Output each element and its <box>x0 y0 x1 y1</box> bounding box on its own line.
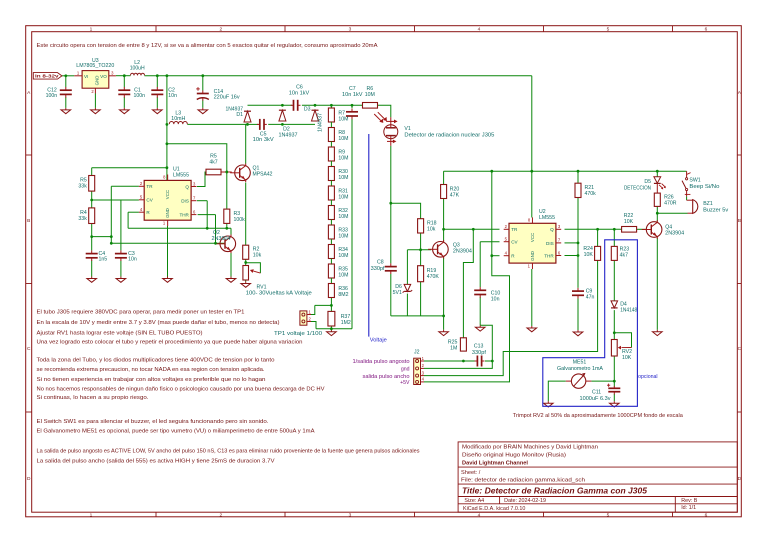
svg-text:10mH: 10mH <box>171 116 185 122</box>
svg-text:TR: TR <box>511 227 518 232</box>
hierarchical label In 8-12v <box>33 73 62 80</box>
wire branch to R3 pullup <box>167 144 227 209</box>
wire narrow pulse net from trigger line to R25 <box>463 229 473 337</box>
wire timing node horizontal <box>92 236 112 238</box>
wire VCC drop to U2 pin 8 <box>531 76 533 218</box>
switch SW1 <box>686 171 688 177</box>
LED D5 DETECCION <box>654 177 661 183</box>
svg-text:10n: 10n <box>128 257 137 263</box>
wire U2 CV to C10 <box>480 241 499 243</box>
trimpot RV2 <box>611 340 617 357</box>
svg-text:No nos hacemos responsables de: No nos hacemos responsables de ningun da… <box>37 387 325 393</box>
wire RV2 wiper loop <box>614 333 631 348</box>
svg-text:TR: TR <box>146 184 153 189</box>
wire CV branch down to C3 <box>120 200 122 250</box>
wire D4 to RV2 <box>613 310 615 339</box>
svg-text:10n 1kV: 10n 1kV <box>289 91 310 97</box>
svg-text:Galvanometro 1mA: Galvanometro 1mA <box>557 366 604 372</box>
svg-text:VO: VO <box>100 74 107 79</box>
svg-text:10M: 10M <box>338 233 348 239</box>
wire Q3 emitter to ground <box>443 258 445 330</box>
svg-text:5: 5 <box>607 27 610 33</box>
svg-text:Beep Si/No: Beep Si/No <box>689 184 719 190</box>
transistor Q2 2N3904 <box>220 236 236 252</box>
svg-text:LM555: LM555 <box>539 215 555 221</box>
svg-text:GND: GND <box>530 251 535 261</box>
resistor R34 <box>328 245 334 259</box>
schematic notes text <box>37 43 684 465</box>
svg-text:1: 1 <box>90 27 93 33</box>
svg-text:DIS: DIS <box>181 199 189 204</box>
capacitor C3 <box>115 253 127 255</box>
wire R36-R37 junction and TP1 pin1 <box>330 298 332 312</box>
wire reset/discharge lower bus <box>128 227 231 229</box>
svg-text:Buzzer 5v: Buzzer 5v <box>703 208 728 214</box>
wire D6 column <box>406 250 408 285</box>
svg-text:Size: A4: Size: A4 <box>464 498 484 504</box>
ground meter <box>547 401 549 403</box>
svg-text:TP1 voltaje 1/100: TP1 voltaje 1/100 <box>274 331 322 337</box>
svg-text:100uH: 100uH <box>130 65 145 71</box>
wire RV2 bottom to meter node <box>613 356 615 387</box>
blue optional box <box>543 240 638 406</box>
wire tube cathode down to pulse node and C8 <box>390 146 392 264</box>
wire +5V sub rail <box>444 170 687 172</box>
svg-text:2N3904: 2N3904 <box>453 249 472 255</box>
wire U1 THR loop <box>198 214 216 216</box>
wire L3 output row to boost node <box>187 123 247 125</box>
capacitor C13 series <box>476 356 478 367</box>
capacitor C1 <box>118 89 130 91</box>
wire RV1 wiper loop <box>246 263 261 273</box>
wire pulse branch to R18 <box>391 203 421 219</box>
transistor Q1 MPSA42 <box>235 165 251 181</box>
wire +9V main top rail <box>62 75 74 77</box>
resistor R33 <box>328 225 334 239</box>
resistor R2 10k <box>243 245 249 259</box>
regulator U3 LM7805 <box>82 71 109 89</box>
svg-text:D3: D3 <box>304 107 311 113</box>
wire R26 to buzzer node <box>656 206 658 213</box>
svg-text:Una vez logrado esto colocar e: Una vez logrado esto colocar el tubo y r… <box>37 340 303 346</box>
capacitor C10 <box>474 289 486 291</box>
resistor R24 10K <box>595 246 601 260</box>
svg-text:10n: 10n <box>491 296 500 302</box>
svg-text:Sheet: /: Sheet: / <box>461 470 481 476</box>
capacitor C4 <box>86 253 98 255</box>
svg-text:CV: CV <box>146 198 153 203</box>
resistor R30 <box>328 167 334 181</box>
svg-text:33k: 33k <box>78 184 87 190</box>
ground C3 <box>120 277 122 279</box>
svg-text:3: 3 <box>349 27 352 33</box>
wire R19 bottom <box>420 282 422 316</box>
wire U2 DIS to timing node <box>565 242 579 244</box>
svg-text:Si continuas, lo hacen a su pr: Si continuas, lo hacen a su propio riesg… <box>37 395 149 401</box>
diode D3 1N4937 <box>312 110 319 121</box>
svg-text:330pf: 330pf <box>472 350 487 356</box>
wire reset high net to J2 +5V <box>424 171 510 382</box>
svg-text:LM7805_TO220: LM7805_TO220 <box>76 63 114 69</box>
svg-text:El tubo J305 requiere 380VDC p: El tubo J305 requiere 380VDC para operar… <box>37 310 245 316</box>
svg-text:Ajustar RV1 hasta lograr este: Ajustar RV1 hasta lograr este voltaje (S… <box>37 331 203 337</box>
wire C2 leg <box>156 76 158 88</box>
ground regulator <box>94 108 96 110</box>
svg-text:Si no tienen experiencia en tr: Si no tienen experiencia en trabajar con… <box>37 377 266 383</box>
svg-text:10M: 10M <box>338 116 348 122</box>
resistor R36 <box>328 284 334 298</box>
svg-text:VCC: VCC <box>530 233 535 242</box>
svg-text:10M: 10M <box>365 92 375 98</box>
wire R4 bottom to C4 <box>91 224 93 251</box>
wire U1 GND leg <box>167 226 169 277</box>
wire HV divider foot node <box>316 328 352 330</box>
svg-text:6: 6 <box>705 512 708 518</box>
555 timer U2 <box>509 223 556 263</box>
svg-text:GND: GND <box>95 76 100 86</box>
svg-text:1M: 1M <box>450 345 457 351</box>
resistor R6 <box>363 103 378 109</box>
transistor Q4 2N3904 <box>646 222 662 238</box>
ground RV1 <box>245 282 247 284</box>
svg-text:D: D <box>738 476 742 482</box>
svg-text:C13: C13 <box>474 344 484 350</box>
wire multiplier bottom rail with C5 gap <box>248 123 259 125</box>
wire C13 right plate to gnd net <box>485 360 492 362</box>
svg-text:C8: C8 <box>377 259 384 265</box>
capacitor C8 <box>385 266 397 268</box>
diode D2 1N4937 <box>279 110 286 121</box>
svg-text:5: 5 <box>607 512 610 518</box>
resistor R4 33k <box>89 208 95 224</box>
svg-text:D: D <box>27 476 31 482</box>
svg-text:+5V: +5V <box>400 380 410 386</box>
555 timer U1 <box>144 180 191 220</box>
svg-text:10M: 10M <box>338 253 348 259</box>
wire C4 bottom to ground <box>91 260 93 276</box>
svg-text:GND: GND <box>165 208 170 218</box>
svg-text:10n: 10n <box>168 93 177 99</box>
blue graphic line Voltaje <box>368 134 370 337</box>
ground C11 <box>613 401 615 403</box>
wire C1 leg <box>123 76 125 88</box>
svg-text:KiCad E.D.A. kicad 7.0.10: KiCad E.D.A. kicad 7.0.10 <box>463 506 525 512</box>
svg-text:File: detector de radiacion ga: File: detector de radiacion gamma.kicad_… <box>461 478 585 484</box>
wire RV1 bottom to ground <box>245 280 247 282</box>
ground U2 <box>531 326 533 328</box>
wire U2 THR to timing node <box>565 255 579 257</box>
svg-text:1000uF 6.3v: 1000uF 6.3v <box>580 396 611 402</box>
resistor R5a 33k <box>89 176 95 192</box>
ground U1 <box>167 277 169 279</box>
inductor L3 <box>169 122 187 125</box>
wire Q1 collector to boost node <box>246 124 248 163</box>
wire wide pulse from R24 to J2 pin3 <box>424 260 598 375</box>
ground Q4 <box>656 330 658 332</box>
svg-text:THR: THR <box>179 213 189 218</box>
wire R2 to RV1 node <box>245 259 247 265</box>
title block <box>458 442 737 512</box>
svg-text:Q: Q <box>550 227 554 232</box>
wire C14 leg <box>202 76 204 91</box>
wire meter left to ground <box>548 381 566 401</box>
buzzer BZ1 <box>686 197 688 201</box>
svg-text:Modificado por BRAIN Machines: Modificado por BRAIN Machines y David Li… <box>462 444 598 450</box>
svg-text:47n: 47n <box>586 294 595 300</box>
resistor R21 470k <box>575 183 581 197</box>
svg-text:470k: 470k <box>585 191 597 197</box>
svg-text:VI: VI <box>84 74 88 79</box>
svg-text:Id: 1/1: Id: 1/1 <box>681 505 696 511</box>
svg-text:SW1: SW1 <box>689 178 700 184</box>
svg-text:Diseño original Hugo Monitov (: Diseño original Hugo Monitov (Rusia) <box>462 452 566 458</box>
capacitor C6 series <box>293 100 295 111</box>
wire C8 bottom <box>390 274 392 316</box>
wire Q2 emitter to ground <box>230 252 232 277</box>
ground C2 <box>156 108 158 110</box>
svg-text:10M: 10M <box>338 155 348 161</box>
svg-text:BZ1: BZ1 <box>703 201 713 207</box>
svg-text:2N3904: 2N3904 <box>665 231 684 237</box>
svg-text:se recomienda extrema precauci: se recomienda extrema precaucion, no toc… <box>37 367 265 373</box>
wire U1 reset pin net <box>128 211 139 213</box>
capacitor C7 <box>346 111 358 113</box>
svg-text:salida pulso ancho: salida pulso ancho <box>363 374 410 380</box>
ground C1 <box>123 108 125 110</box>
wire Q3 base network <box>407 249 431 251</box>
svg-text:La salida de pulso angosto es: La salida de pulso angosto es ACTIVE LOW… <box>37 448 420 454</box>
svg-text:Este circuito opera con tensio: Este circuito opera con tension de entre… <box>37 43 378 49</box>
wire R37 bottom to ground <box>330 326 332 330</box>
svg-text:El Galvanometro ME51 es opcion: El Galvanometro ME51 es opcional, puede … <box>37 429 315 435</box>
geiger tube V1 <box>384 125 398 139</box>
resistor R8 <box>328 128 334 142</box>
svg-text:10K: 10K <box>622 355 632 361</box>
ground C9 <box>577 330 579 332</box>
trimpot RV1 <box>243 266 249 281</box>
resistor R32 <box>328 206 334 220</box>
wire gnd net to J2 pin2 <box>424 325 492 368</box>
svg-text:La salida del pulso ancho (sal: La salida del pulso ancho (salida del 55… <box>37 459 275 465</box>
ground C4 <box>91 277 93 279</box>
svg-text:V1: V1 <box>404 126 410 132</box>
svg-text:opcional: opcional <box>638 374 658 380</box>
svg-text:100k: 100k <box>234 217 246 223</box>
svg-text:10k: 10k <box>253 253 262 259</box>
resistor R9 <box>328 147 334 161</box>
svg-text:1N4937: 1N4937 <box>318 113 324 132</box>
svg-text:C11: C11 <box>592 389 601 395</box>
wire U1 TR pin <box>111 185 139 187</box>
svg-text:47K: 47K <box>450 193 460 199</box>
svg-text:100n: 100n <box>46 93 58 99</box>
ground C12 <box>65 108 67 110</box>
svg-text:1M2: 1M2 <box>341 320 351 326</box>
svg-text:2N3904: 2N3904 <box>212 236 231 242</box>
svg-text:5V1: 5V1 <box>393 290 402 296</box>
wire regulator ground leg <box>94 94 96 108</box>
svg-text:CV: CV <box>511 240 518 245</box>
svg-text:David Lightman Channel: David Lightman Channel <box>462 460 528 466</box>
wire TP1 pin2 <box>311 322 316 329</box>
wire rail drop x=167 to L3 / R3 pullup / U1 VCC <box>166 76 168 181</box>
svg-text:4k7: 4k7 <box>209 159 217 165</box>
connector J2 <box>414 358 421 384</box>
wire R7 chain top leg <box>330 105 332 108</box>
svg-text:In 8-32v: In 8-32v <box>35 74 59 80</box>
wire U2 GND leg <box>531 269 533 326</box>
wire Q1 emitter down to R2 <box>245 183 247 246</box>
ground pulse network <box>443 330 445 332</box>
wire R5b to Q1 base <box>221 171 232 173</box>
wire C12 leg <box>65 76 67 87</box>
resistor R26 470R <box>654 193 660 206</box>
wire buzzer node to Q4 collector <box>657 212 687 214</box>
wire J2 pin1 narrow pulse line <box>424 360 477 362</box>
wire U1 CV net to R4/R5 divider <box>92 199 139 201</box>
svg-text:4k7: 4k7 <box>620 252 628 258</box>
ground Q2 <box>230 277 232 279</box>
svg-text:1: 1 <box>90 512 93 518</box>
wire D5 anode from rail <box>656 171 658 176</box>
svg-text:470K: 470K <box>427 274 440 280</box>
svg-text:33k: 33k <box>78 216 87 222</box>
ground C10 <box>479 325 481 327</box>
svg-text:D5: D5 <box>644 179 651 185</box>
capacitor C9 <box>572 290 584 292</box>
wire U1 DIS pin drop <box>197 200 207 202</box>
diode D4 1N4148 <box>611 301 618 308</box>
svg-text:DIS: DIS <box>546 241 554 246</box>
svg-text:ME51: ME51 <box>573 359 587 365</box>
wire C9 column <box>577 243 579 288</box>
svg-text:Date: 2024-02-19: Date: 2024-02-19 <box>504 498 546 504</box>
svg-text:VCC: VCC <box>165 190 170 199</box>
svg-text:1/salida pulso angosto: 1/salida pulso angosto <box>353 359 410 365</box>
wire meter right to C11 node <box>591 380 614 382</box>
svg-text:1N4937: 1N4937 <box>279 132 298 138</box>
wire R23 to D4 <box>613 260 615 301</box>
wire U1 output to R5b <box>197 172 206 187</box>
svg-text:2: 2 <box>219 512 222 518</box>
svg-text:Trimpot RV2 al 50% da aproxima: Trimpot RV2 al 50% da aproximadamente 10… <box>513 413 684 419</box>
svg-text:Detector de radiacion nuclear: Detector de radiacion nuclear J305 <box>404 132 494 138</box>
svg-text:8M2: 8M2 <box>338 292 348 298</box>
resistor R22 10K horizontal <box>622 227 637 233</box>
resistor R35 <box>328 264 334 278</box>
svg-text:J2: J2 <box>414 350 420 356</box>
svg-text:gnd: gnd <box>401 367 410 373</box>
svg-text:10M: 10M <box>338 136 348 142</box>
wire R21 legs <box>577 171 579 183</box>
wire top rail after R6 down to tube anode <box>378 105 391 117</box>
wire C11 bottom to ground <box>613 394 615 401</box>
diode D1 1N4937 <box>244 111 251 122</box>
wire U2 reset pin <box>492 255 500 257</box>
svg-text:DETECCION: DETECCION <box>624 185 651 191</box>
svg-text:3: 3 <box>349 512 352 518</box>
capacitor C14 polarized <box>197 93 209 95</box>
wire U1 TR/THR vertical <box>110 186 112 243</box>
wire C10 bottom to ground <box>479 297 481 325</box>
svg-text:1n5: 1n5 <box>99 257 108 263</box>
svg-text:10M: 10M <box>338 194 348 200</box>
svg-text:En la escala de 10V y medir en: En la escala de 10V y medir entre 3.7 y … <box>37 320 280 326</box>
svg-text:10K: 10K <box>624 219 634 225</box>
wire R3 bottom to Q2 collector <box>226 223 228 228</box>
svg-text:1N4148: 1N4148 <box>620 307 637 313</box>
svg-text:Title: Detector de Radiacion G: Title: Detector de Radiacion Gamma con J… <box>462 487 648 496</box>
svg-text:100n: 100n <box>134 93 146 99</box>
svg-text:Toda la zona del Tubo, y los d: Toda la zona del Tubo, y los diodos mult… <box>37 358 275 364</box>
svg-text:Q: Q <box>185 184 189 189</box>
connector TP1 <box>300 311 307 325</box>
svg-text:4: 4 <box>478 512 481 518</box>
wire C3 bottom to ground <box>120 260 122 276</box>
resistor R7 <box>328 108 334 122</box>
svg-text:C: C <box>27 346 31 352</box>
svg-text:D1: D1 <box>236 112 243 118</box>
inductor L2 <box>131 73 145 75</box>
capacitor C2 <box>151 89 163 91</box>
svg-text:10M: 10M <box>338 175 348 181</box>
wire R22 right leg to Q4 base <box>637 228 646 230</box>
wire R20 legs <box>443 171 445 184</box>
svg-text:Voltaje: Voltaje <box>370 337 387 343</box>
resistor R25 1M <box>460 338 466 351</box>
svg-text:B: B <box>27 218 30 224</box>
resistor R5b 4k7 <box>206 169 221 175</box>
svg-text:Rev: B: Rev: B <box>681 498 698 504</box>
wire timing bus to Q2 base <box>111 242 224 244</box>
svg-text:2: 2 <box>219 27 222 33</box>
ground R37 <box>330 330 332 332</box>
wire pulse ground bus <box>391 315 444 317</box>
svg-text:B: B <box>738 218 741 224</box>
wire multiplier top rail with C6 gap <box>248 104 292 106</box>
svg-text:THR: THR <box>544 253 554 258</box>
wire R24 top leg <box>597 229 599 246</box>
wire R5a leg <box>91 168 93 176</box>
svg-text:El Switch SW1 es para silencia: El Switch SW1 es para silenciar el buzze… <box>37 419 269 425</box>
transistor Q3 2N3904 <box>433 242 449 258</box>
svg-text:10K: 10K <box>584 252 594 258</box>
svg-text:4: 4 <box>478 27 481 33</box>
galvanometer ME51 <box>571 374 585 388</box>
svg-text:LM555: LM555 <box>173 172 189 178</box>
resistor R3 100k <box>224 209 230 223</box>
svg-text:10M: 10M <box>338 272 348 278</box>
ground C14 <box>202 108 204 110</box>
svg-text:220uF 16v: 220uF 16v <box>214 94 240 100</box>
svg-text:100- 30Vueltas kA Voltaje: 100- 30Vueltas kA Voltaje <box>246 291 312 297</box>
svg-text:10k: 10k <box>427 227 436 233</box>
zener D6 5V1 <box>404 284 411 291</box>
wire branch to R5 top / U1 VCC node <box>92 167 167 169</box>
resistor R18 10k <box>418 219 424 233</box>
svg-text:10n 3kV: 10n 3kV <box>253 137 275 143</box>
resistor R19 470K <box>418 266 424 282</box>
resistor R37 <box>328 311 335 326</box>
resistor R20 47K <box>441 185 447 199</box>
svg-text:C: C <box>738 346 742 352</box>
resistor R31 <box>328 186 334 200</box>
wire Q4 emitter to ground <box>656 238 658 330</box>
svg-text:470R: 470R <box>664 201 677 207</box>
wire R23 top leg <box>613 229 615 246</box>
capacitor C5 series <box>259 119 261 130</box>
svg-text:6: 6 <box>705 27 708 33</box>
